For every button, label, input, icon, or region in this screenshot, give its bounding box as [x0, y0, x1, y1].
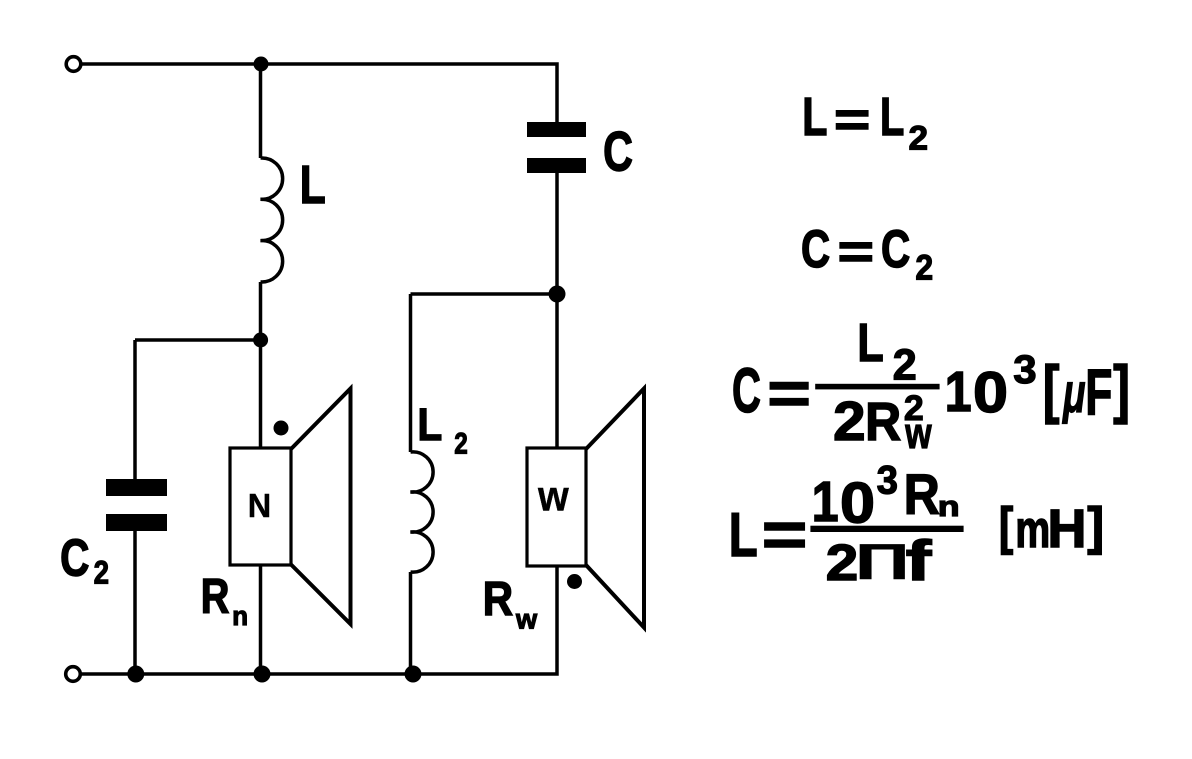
svg-text:μ: μ	[1061, 363, 1085, 425]
svg-text:m: m	[1015, 500, 1050, 559]
svg-text:R: R	[483, 571, 513, 626]
svg-text:C: C	[801, 219, 830, 279]
svg-text:3: 3	[877, 459, 898, 503]
svg-text:=: =	[762, 499, 808, 571]
svg-text:1: 1	[945, 360, 972, 424]
svg-text:2: 2	[909, 120, 929, 157]
svg-text:C: C	[603, 122, 633, 183]
svg-text:2: 2	[833, 391, 865, 452]
svg-text:2: 2	[454, 426, 468, 460]
svg-text:2: 2	[893, 342, 917, 390]
svg-text:C: C	[60, 529, 89, 587]
svg-text:∏: ∏	[854, 536, 911, 579]
svg-text:L: L	[802, 88, 827, 148]
svg-text:R: R	[865, 392, 901, 452]
svg-text:[: [	[1043, 354, 1060, 425]
svg-text:L: L	[880, 87, 904, 147]
svg-text:2: 2	[915, 249, 933, 288]
svg-text:R: R	[201, 570, 230, 624]
svg-text:L: L	[300, 155, 326, 215]
svg-text:2: 2	[94, 555, 109, 591]
svg-text:f: f	[906, 530, 932, 593]
svg-text:0: 0	[840, 470, 875, 535]
svg-text:]: ]	[1113, 354, 1130, 425]
svg-text:[: [	[999, 498, 1013, 556]
svg-text:=: =	[767, 361, 810, 427]
svg-text:w: w	[537, 472, 570, 520]
svg-text:]: ]	[1087, 497, 1104, 555]
svg-text:R: R	[904, 464, 940, 527]
svg-text:=: =	[834, 92, 870, 146]
svg-text:C: C	[732, 356, 761, 426]
svg-text:w: w	[515, 604, 538, 635]
svg-text:L: L	[729, 500, 758, 570]
svg-text:L: L	[857, 313, 883, 373]
svg-text:F: F	[1085, 356, 1112, 428]
svg-text:=: =	[838, 225, 874, 279]
svg-text:H: H	[1048, 499, 1087, 559]
svg-text:L: L	[418, 400, 443, 451]
svg-text:n: n	[232, 601, 248, 631]
svg-text:n: n	[938, 490, 960, 522]
svg-text:N: N	[248, 487, 271, 525]
svg-text:3: 3	[1013, 347, 1036, 392]
svg-text:0: 0	[973, 359, 1008, 424]
svg-text:1: 1	[812, 471, 839, 535]
svg-text:w: w	[904, 410, 932, 458]
svg-text:C: C	[881, 220, 910, 280]
